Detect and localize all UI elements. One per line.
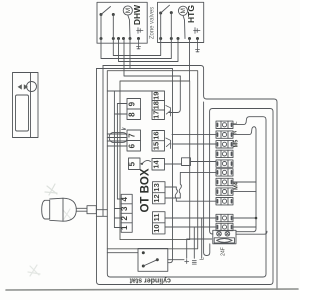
svg-text:cylinder stat: cylinder stat	[129, 277, 171, 284]
wire low a to collector	[233, 217, 256, 219]
watermark speck 1	[45, 184, 57, 195]
wire HTG dot to box edge	[189, 39, 191, 82]
svg-text:M4: M4	[234, 181, 240, 190]
wire vertical 172 to cylinder stat	[168, 69, 173, 263]
terminal connector M5c	[216, 141, 233, 148]
earth tail DHW	[137, 39, 141, 50]
label n above boot	[122, 128, 126, 130]
terminal connector L	[216, 121, 233, 128]
svg-text:24F: 24F	[221, 247, 227, 256]
terminal strip 17 18 19	[152, 91, 165, 120]
label tail L	[200, 257, 206, 260]
label M4	[234, 181, 240, 190]
wire connector second to riser	[236, 231, 267, 234]
wire cylinder stat right	[168, 259, 184, 261]
svg-text:OT BOX: OT BOX	[140, 168, 152, 212]
svg-text:N: N	[233, 131, 239, 135]
plug cable	[76, 208, 87, 211]
wire run rE	[97, 39, 173, 69]
svg-text:17: 17	[152, 111, 161, 119]
OT BOX outline	[120, 81, 190, 240]
motor M (DHW actuator)	[123, 6, 132, 39]
wire 14 to inline connector	[165, 163, 182, 165]
plug link at 17-19	[166, 106, 171, 117]
wire wavy drop b	[179, 172, 216, 198]
room thermostat	[13, 73, 39, 138]
label OT BOX	[140, 168, 152, 212]
wire stubs 8 9	[114, 104, 127, 115]
wire DHW switch legs	[101, 15, 113, 39]
terminal block 6 7	[127, 130, 141, 151]
wire big loop left	[97, 69, 274, 285]
wire enclosure left extension	[107, 117, 266, 277]
enclosure boundary box	[107, 71, 197, 249]
svg-text:M5: M5	[234, 140, 240, 148]
label N	[233, 131, 239, 135]
wire vertical 117	[116, 104, 118, 200]
svg-text:10: 10	[152, 224, 161, 232]
zone valve HTG box	[158, 2, 204, 42]
watermark speck 3	[28, 265, 40, 276]
DHW terminal dots	[100, 37, 141, 40]
terminal connector M5d	[216, 150, 233, 157]
svg-text:19: 19	[152, 92, 161, 100]
terminal connector M4c	[216, 188, 233, 195]
terminal strip 10 11	[152, 212, 165, 234]
label DHW	[132, 4, 142, 25]
plug link at 15-16	[166, 138, 171, 149]
cylinder stat box	[138, 249, 168, 272]
earth symbol in HTG box	[194, 28, 200, 34]
mains tail E	[187, 239, 212, 258]
cable junction	[87, 206, 96, 214]
wire junction to enclosure	[96, 210, 107, 217]
wire connector to block M5e	[191, 161, 217, 163]
label 24F	[221, 247, 227, 256]
wire M4c to collector	[233, 191, 256, 193]
label Zone valves	[150, 7, 156, 39]
svg-text:8: 8	[128, 112, 137, 117]
wire run rC	[119, 39, 179, 62]
wire staple1 leg to connector	[204, 102, 210, 256]
wire 10 to lower block	[165, 226, 216, 228]
svg-text:16: 16	[152, 131, 161, 139]
label tail E	[185, 260, 189, 264]
svg-text:14: 14	[152, 160, 161, 169]
svg-text:11: 11	[152, 213, 161, 221]
DHW switch contact	[100, 7, 115, 17]
terminal block 5	[128, 158, 140, 170]
HTG terminal dots	[159, 37, 199, 40]
earth tail HTG	[196, 39, 200, 53]
svg-text:M: M	[125, 8, 132, 13]
switch between 5 and 14	[140, 160, 151, 164]
zone valve DHW box	[97, 2, 147, 43]
wire stub 6	[107, 145, 127, 147]
page bottom rule	[6, 289, 298, 290]
earth symbol in DHW box	[137, 28, 143, 34]
wire drop to plug link 17-19	[169, 76, 180, 113]
terminal connector M5e	[216, 160, 233, 167]
terminal connector N	[216, 131, 233, 138]
wire 11 to lower block	[165, 217, 216, 219]
wire run rF	[124, 39, 181, 77]
svg-text:DHW: DHW	[132, 4, 142, 25]
wire M4b to collector	[233, 181, 256, 183]
svg-text:HTG: HTG	[186, 5, 196, 23]
label L	[233, 121, 239, 124]
cable boot into terminal 7	[107, 133, 127, 143]
svg-text:L: L	[200, 257, 206, 260]
junction dot collector	[255, 217, 258, 220]
wire stubs terminals 1-4	[114, 199, 121, 228]
inline connector on wire 14	[182, 158, 191, 166]
boiler connector 24F	[213, 230, 236, 244]
svg-text:5: 5	[128, 161, 137, 166]
terminal strip 15 16	[152, 131, 165, 152]
svg-text:7: 7	[128, 133, 137, 138]
terminal block 14	[152, 159, 165, 171]
label M5	[234, 140, 240, 148]
svg-text:Zone valves: Zone valves	[150, 7, 156, 39]
label tail N	[192, 261, 196, 265]
wire run rA	[113, 39, 160, 56]
watermark speck 2	[63, 209, 71, 219]
terminal connector M4d	[216, 198, 233, 205]
wire N to collector	[233, 127, 256, 232]
terminal connector low a	[216, 214, 233, 221]
mains tail L	[201, 218, 203, 258]
wire 15-16 to block N	[172, 134, 216, 136]
mains plug	[42, 198, 77, 221]
wire vertical 114	[113, 91, 115, 228]
wire to terminal 19	[107, 90, 152, 92]
wire low b to collector	[233, 226, 256, 228]
terminal connector M4a	[216, 169, 233, 176]
terminal connector low b	[216, 223, 233, 230]
wire HTG switch legs	[161, 13, 172, 39]
terminal strip 1 2 3 4	[120, 194, 132, 232]
wire 12 riser	[165, 197, 180, 199]
wire cylinder stat left	[107, 252, 138, 254]
wire run rB	[101, 39, 171, 59]
HTG switch contact	[159, 5, 173, 14]
svg-text:13: 13	[152, 183, 161, 191]
terminal block 8 9	[127, 99, 141, 120]
terminal connector M4b	[216, 178, 233, 185]
wire left leg to plug	[102, 66, 104, 210]
wire run rD staple to right side	[103, 66, 277, 290]
wire wavy drop a	[175, 187, 216, 201]
mains tail N	[193, 227, 195, 258]
svg-text:L: L	[233, 121, 239, 124]
motor M (HTG actuator)	[178, 6, 187, 38]
wire 13 riser	[165, 186, 176, 188]
wire 15-16 to block M5c	[172, 143, 216, 145]
label HTG	[186, 5, 196, 23]
svg-text:15: 15	[152, 142, 161, 150]
svg-text:18: 18	[152, 101, 161, 109]
terminal strip 12 13	[152, 182, 165, 204]
svg-text:12: 12	[152, 194, 161, 202]
svg-text:6: 6	[128, 143, 137, 148]
svg-text:9: 9	[128, 101, 137, 106]
label cylinder stat	[129, 277, 171, 284]
